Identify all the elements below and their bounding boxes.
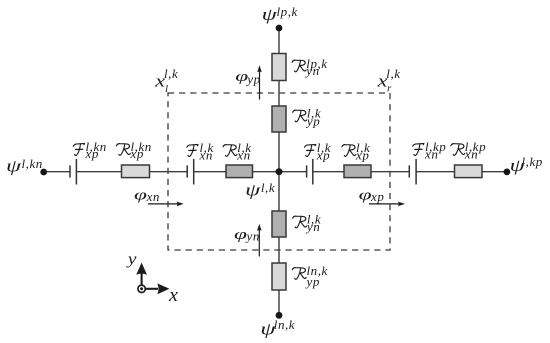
svg-text:xn: xn <box>146 189 160 204</box>
label F_xn^{l,k} <box>187 140 214 163</box>
svg-text:ψ: ψ <box>245 180 261 199</box>
svg-text:lp,k: lp,k <box>277 4 298 19</box>
coordinate axes origin symbol <box>138 285 145 292</box>
svg-text:xp: xp <box>85 146 99 161</box>
node label psi^{ln,k} <box>260 317 295 338</box>
svg-text:ψ: ψ <box>6 156 22 175</box>
wire: resistor R_yn^{lp,k} to resistor R_yp^{l,k} <box>278 81 280 107</box>
svg-text:xn: xn <box>464 147 478 162</box>
battery F_xn^{l,k} plates <box>187 159 194 185</box>
battery F_xn^{l,kp} plates <box>409 159 416 185</box>
wire: resistor R_xn^{l,kp} to node psi^{l,kp} <box>482 171 507 173</box>
wire: resistor R_yp^{ln,k} to node psi^{ln,k} <box>278 290 280 315</box>
svg-text:φ: φ <box>234 227 247 243</box>
wire: node psi^{lp,k} to resistor R_yn^{lp,k} <box>278 28 280 54</box>
resistor R_xp^{l,k} box <box>344 165 371 178</box>
resistor R_yn^{l,k} box <box>272 211 286 237</box>
label R_xp^{l,kn} <box>116 139 151 161</box>
label F_xn^{l,kp} <box>413 139 447 162</box>
resistor R_yp^{ln,k} box <box>272 263 286 290</box>
svg-text:x: x <box>168 286 178 306</box>
svg-text:yn: yn <box>245 229 260 244</box>
wire: battery F_xn^{l,kp} to resistor R_xn^{l,kp} <box>416 171 454 173</box>
svg-text:l,kn: l,kn <box>22 156 43 171</box>
resistor R_yn^{lp,k} box <box>272 54 286 81</box>
wire: resistor R_xp^{l,kn} to battery F_xn^{l,k} <box>150 171 188 173</box>
wire: battery F_xp^{l,k} to resistor R_xp^{l,k} <box>313 171 344 173</box>
svg-text:xp: xp <box>370 189 384 204</box>
svg-text:yp: yp <box>305 114 320 129</box>
dashed cell boundary box <box>168 93 390 250</box>
svg-text:l,kp: l,kp <box>522 154 543 169</box>
svg-text:φ: φ <box>134 188 147 204</box>
battery F_xp^{l,k} plates <box>307 159 313 185</box>
node label psi^{l,k} <box>245 180 275 199</box>
label phi_xp <box>359 188 385 204</box>
label phi_yn <box>234 227 260 243</box>
label R_yp^{ln,k} <box>292 263 328 289</box>
wire: resistor R_xp^{l,k} to battery F_xn^{l,kp} <box>371 171 409 173</box>
label R_yn^{lp,k} <box>292 56 328 78</box>
wire: resistor R_yp^{l,k} through node psi^{l,k} to resistor R_yn^{l,k} <box>278 132 280 211</box>
resistor R_xn^{l,k} box <box>226 165 253 178</box>
svg-text:yn: yn <box>304 63 319 78</box>
resistor R_yp^{l,k} box <box>272 106 286 132</box>
label R_xp^{l,k} <box>342 140 370 163</box>
svg-text:yp: yp <box>245 72 260 87</box>
label F_xp^{l,k} <box>305 140 332 163</box>
axis x arrow <box>145 283 169 294</box>
label R_xn^{l,kp} <box>451 139 486 162</box>
svg-text:ln,k: ln,k <box>274 317 295 332</box>
label phi_yp <box>235 69 260 86</box>
label phi_xn <box>134 188 160 204</box>
label R_yn^{l,k} <box>293 212 321 234</box>
node label psi^{l,kp} <box>510 154 543 175</box>
svg-text:r: r <box>387 83 392 95</box>
arrow phi_yn <box>257 224 262 257</box>
svg-text:yn: yn <box>305 219 320 234</box>
svg-text:xp: xp <box>316 148 330 163</box>
svg-text:l,k: l,k <box>261 180 275 195</box>
node psi^{l,kn} dot <box>40 169 47 176</box>
axis label y <box>126 250 137 268</box>
node psi^{lp,k} dot <box>276 25 283 32</box>
arrow phi_xn <box>148 202 184 207</box>
label x_l^{l,k} <box>154 66 178 95</box>
arrow phi_xp <box>369 202 405 207</box>
resistor R_xn^{l,kp} box <box>455 165 483 178</box>
battery F_xp^{l,kn} plates <box>70 159 76 185</box>
svg-text:xn: xn <box>424 147 438 162</box>
node psi^{ln,k} dot <box>276 312 283 319</box>
svg-text:y: y <box>126 250 137 268</box>
svg-text:ψ: ψ <box>262 5 278 24</box>
svg-text:l,k: l,k <box>386 66 400 81</box>
node label psi^{l,kn} <box>6 156 43 176</box>
node psi^{l,kp} dot <box>504 169 511 176</box>
svg-text:xn: xn <box>199 148 213 163</box>
axis y arrow <box>136 263 147 285</box>
node psi^{l,k} dot <box>276 168 283 175</box>
label R_yp^{l,k} <box>293 106 321 129</box>
wire: node psi^{l,kn} to battery F_xp^{l,kn} <box>44 171 70 173</box>
svg-text:xp: xp <box>355 148 369 163</box>
svg-text:l,k: l,k <box>164 66 178 81</box>
node label psi^{lp,k} <box>262 4 298 24</box>
wire: battery F_xn^{l,k} to resistor R_xn^{l,k} <box>194 171 226 173</box>
svg-text:l: l <box>165 83 168 95</box>
resistor R_xp^{l,kn} box <box>122 165 150 178</box>
label R_xn^{l,k} <box>223 140 251 163</box>
label x_r^{l,k} <box>376 66 400 95</box>
arrow phi_yp <box>257 65 262 99</box>
svg-text:φ: φ <box>359 188 372 204</box>
svg-text:xn: xn <box>236 148 250 163</box>
wire: battery F_xp^{l,kn} to resistor R_xp^{l,kn} <box>76 171 121 173</box>
svg-text:yp: yp <box>305 274 320 289</box>
axis label x <box>168 286 178 306</box>
svg-text:xp: xp <box>130 146 144 161</box>
wire: resistor R_xn^{l,k} through node psi^{l,k} to battery F_xp^{l,k} <box>253 171 307 173</box>
wire: resistor R_yn^{l,k} to resistor R_yp^{ln,k} <box>278 237 280 263</box>
label F_xp^{l,kn} <box>73 139 107 161</box>
